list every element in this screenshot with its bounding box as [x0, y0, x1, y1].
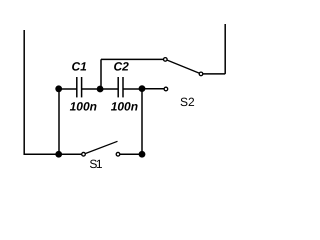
junction node A — [55, 85, 62, 92]
wire C1 to node B — [82, 88, 101, 90]
wire C2 to node C — [123, 88, 142, 90]
wire node B up — [100, 59, 102, 89]
wire node C vertical — [141, 89, 143, 155]
junction node C — [139, 85, 146, 92]
wire node B to C2 — [101, 88, 119, 90]
wire node C to S2 throw 2 — [142, 88, 166, 90]
switch S2 — [164, 58, 203, 91]
junction bottom left — [55, 151, 62, 158]
wire left rail — [23, 30, 25, 155]
svg-text:S2: S2 — [180, 95, 195, 109]
wire bottom right — [118, 153, 142, 155]
svg-text:C1: C1 — [72, 60, 88, 74]
wire bottom left — [24, 153, 84, 155]
capacitor C1 — [77, 77, 82, 97]
wire to S2 throw 1 — [101, 58, 165, 60]
switch S1 — [82, 141, 120, 156]
svg-text:C2: C2 — [114, 60, 130, 74]
svg-text:S1: S1 — [89, 157, 103, 171]
wire S2 common to right rail — [201, 73, 225, 75]
wire node A to C1 — [59, 88, 77, 90]
capacitor C2 — [118, 77, 123, 97]
wire right rail — [224, 24, 226, 74]
svg-text:100n: 100n — [70, 99, 97, 113]
junction bottom right — [139, 151, 146, 158]
svg-text:100n: 100n — [111, 99, 138, 113]
wire node A vertical — [58, 89, 60, 154]
junction node B — [97, 86, 104, 93]
